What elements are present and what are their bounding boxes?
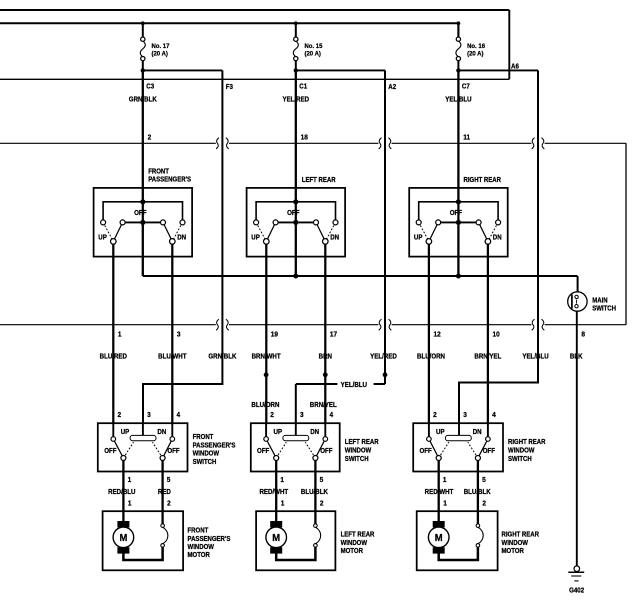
svg-text:PASSENGER'S: PASSENGER'S — [188, 535, 231, 543]
svg-text:WINDOW: WINDOW — [193, 450, 220, 458]
svg-text:RIGHT REAR: RIGHT REAR — [464, 177, 502, 185]
svg-text:4: 4 — [492, 412, 496, 419]
svg-text:C1: C1 — [299, 83, 307, 90]
svg-text:11: 11 — [463, 134, 470, 141]
svg-text:BLK: BLK — [570, 353, 583, 360]
svg-text:2: 2 — [482, 500, 486, 507]
svg-text:LEFT REAR: LEFT REAR — [341, 531, 375, 539]
svg-text:19: 19 — [271, 331, 278, 338]
svg-text:BLU/WHT: BLU/WHT — [158, 353, 186, 360]
svg-text:DN: DN — [177, 234, 186, 241]
svg-text:OFF: OFF — [287, 210, 299, 217]
svg-text:OFF: OFF — [450, 210, 462, 217]
svg-text:UP: UP — [251, 234, 260, 241]
svg-text:MOTOR: MOTOR — [341, 548, 364, 556]
svg-text:WINDOW: WINDOW — [345, 447, 372, 455]
svg-text:OFF: OFF — [320, 448, 332, 455]
svg-text:OFF: OFF — [420, 448, 432, 455]
svg-text:1: 1 — [118, 331, 122, 338]
svg-text:RED/WHT: RED/WHT — [425, 489, 454, 496]
svg-text:UP: UP — [436, 429, 445, 436]
svg-text:10: 10 — [493, 331, 500, 338]
svg-text:3: 3 — [147, 412, 151, 419]
svg-text:M: M — [119, 533, 127, 545]
svg-text:DN: DN — [310, 429, 319, 436]
svg-text:RED/WHT: RED/WHT — [259, 489, 288, 496]
svg-text:WINDOW: WINDOW — [188, 544, 215, 552]
svg-text:1: 1 — [443, 477, 447, 484]
svg-text:2: 2 — [433, 412, 437, 419]
svg-text:MOTOR: MOTOR — [502, 548, 525, 556]
svg-text:RIGHT REAR: RIGHT REAR — [508, 439, 546, 447]
svg-text:SWITCH: SWITCH — [592, 305, 616, 313]
svg-text:(20 A): (20 A) — [152, 50, 168, 57]
svg-text:1: 1 — [443, 500, 447, 507]
svg-text:4: 4 — [177, 412, 181, 419]
svg-text:4: 4 — [330, 412, 334, 419]
svg-text:3: 3 — [300, 412, 304, 419]
svg-text:OFF: OFF — [257, 448, 269, 455]
svg-text:GRN/BLK: GRN/BLK — [208, 353, 236, 360]
svg-text:G402: G402 — [569, 587, 584, 594]
svg-text:UP: UP — [121, 429, 130, 436]
svg-text:DN: DN — [330, 234, 339, 241]
svg-text:MOTOR: MOTOR — [188, 552, 211, 560]
svg-text:RIGHT REAR: RIGHT REAR — [502, 531, 540, 539]
svg-text:DN: DN — [493, 234, 502, 241]
svg-text:BLU/RED: BLU/RED — [100, 353, 128, 360]
svg-text:8: 8 — [581, 331, 585, 338]
svg-text:WINDOW: WINDOW — [502, 539, 529, 547]
svg-text:LEFT REAR: LEFT REAR — [345, 439, 379, 447]
svg-text:OFF: OFF — [167, 448, 179, 455]
svg-text:YEL/BLU: YEL/BLU — [522, 353, 549, 360]
svg-text:MAIN: MAIN — [592, 297, 608, 305]
svg-text:BRN/YEL: BRN/YEL — [474, 353, 501, 360]
svg-text:FRONT: FRONT — [188, 527, 209, 535]
svg-text:FRONT: FRONT — [148, 168, 169, 176]
svg-text:A2: A2 — [388, 83, 396, 90]
svg-text:A6: A6 — [511, 63, 519, 70]
svg-text:LEFT REAR: LEFT REAR — [302, 177, 336, 185]
svg-text:OFF: OFF — [483, 448, 495, 455]
svg-text:2: 2 — [320, 500, 324, 507]
svg-text:BRN/WHT: BRN/WHT — [252, 353, 281, 360]
svg-text:No. 15: No. 15 — [305, 42, 323, 49]
svg-text:WINDOW: WINDOW — [508, 447, 535, 455]
svg-text:PASSENGER'S: PASSENGER'S — [148, 176, 191, 184]
svg-text:18: 18 — [301, 134, 308, 141]
svg-text:5: 5 — [482, 477, 486, 484]
svg-text:F3: F3 — [226, 83, 233, 90]
svg-text:UP: UP — [98, 234, 107, 241]
svg-text:YEL/BLU: YEL/BLU — [341, 382, 368, 389]
svg-text:1: 1 — [281, 500, 285, 507]
svg-text:(20 A): (20 A) — [467, 50, 483, 57]
svg-text:OFF: OFF — [104, 448, 116, 455]
svg-text:SWITCH: SWITCH — [345, 456, 369, 464]
svg-text:3: 3 — [463, 412, 467, 419]
svg-text:2: 2 — [118, 412, 122, 419]
svg-text:OFF: OFF — [134, 210, 146, 217]
svg-text:C7: C7 — [462, 83, 470, 90]
svg-text:BLU/ORN: BLU/ORN — [251, 402, 279, 409]
svg-text:1: 1 — [128, 477, 132, 484]
svg-text:BLU/BLK: BLU/BLK — [301, 489, 328, 496]
svg-text:2: 2 — [167, 500, 171, 507]
svg-text:17: 17 — [330, 331, 337, 338]
svg-text:2: 2 — [148, 134, 152, 141]
svg-text:SWITCH: SWITCH — [508, 456, 532, 464]
svg-text:(20 A): (20 A) — [305, 50, 321, 57]
svg-text:BRN: BRN — [319, 353, 333, 360]
svg-text:5: 5 — [320, 477, 324, 484]
svg-text:BRN/YEL: BRN/YEL — [310, 402, 337, 409]
svg-text:2: 2 — [270, 412, 274, 419]
svg-text:No. 17: No. 17 — [152, 42, 170, 49]
svg-text:FRONT: FRONT — [193, 434, 214, 442]
svg-text:UP: UP — [274, 429, 283, 436]
svg-text:YEL/RED: YEL/RED — [370, 353, 397, 360]
svg-text:DN: DN — [157, 429, 166, 436]
svg-text:RED: RED — [158, 489, 171, 496]
svg-text:M: M — [272, 533, 280, 545]
svg-text:12: 12 — [434, 331, 441, 338]
svg-text:PASSENGER'S: PASSENGER'S — [193, 442, 236, 450]
svg-text:RED/BLU: RED/BLU — [108, 489, 136, 496]
svg-text:SWITCH: SWITCH — [193, 458, 217, 466]
svg-text:1: 1 — [128, 500, 132, 507]
svg-text:1: 1 — [280, 477, 284, 484]
svg-text:UP: UP — [414, 234, 423, 241]
svg-text:3: 3 — [177, 331, 181, 338]
svg-text:5: 5 — [167, 477, 171, 484]
svg-text:M: M — [435, 533, 443, 545]
svg-text:No. 16: No. 16 — [467, 42, 485, 49]
svg-text:DN: DN — [473, 429, 482, 436]
svg-text:BLU/BLK: BLU/BLK — [464, 489, 491, 496]
svg-text:BLU/ORN: BLU/ORN — [417, 353, 445, 360]
svg-text:C3: C3 — [146, 83, 154, 90]
svg-text:WINDOW: WINDOW — [341, 539, 368, 547]
